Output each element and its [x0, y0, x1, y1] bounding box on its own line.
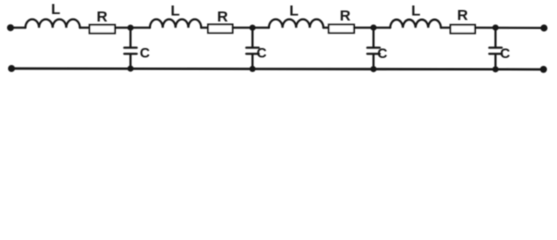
wire L2 to R2	[201, 27, 208, 29]
svg-text:C: C	[500, 45, 510, 61]
node 1 junction dot (top)	[127, 25, 133, 31]
node 4 junction dot (top)	[492, 25, 498, 31]
terminal dot top-right	[541, 25, 548, 32]
inductor L2	[150, 19, 201, 27]
inductor L4	[390, 20, 441, 28]
wire R3 to node 3 and on to L4	[354, 27, 390, 29]
svg-text:C: C	[377, 45, 387, 61]
wire bottom rail	[12, 67, 544, 70]
capacitor C1	[124, 28, 136, 69]
capacitor C3	[367, 28, 379, 70]
svg-text:L: L	[51, 1, 60, 18]
wire R1 to node 1 and on to L2	[115, 27, 150, 29]
resistor R1	[90, 25, 116, 34]
wire L3 to R3	[323, 27, 328, 29]
terminal dot bottom-right	[540, 66, 547, 73]
node 1 junction dot (bottom)	[127, 66, 133, 72]
inductor L3	[269, 19, 323, 27]
resistor R4	[450, 25, 475, 34]
capacitor C4	[489, 28, 501, 70]
node 4 junction dot (bottom)	[492, 66, 498, 72]
terminal dot top-left	[7, 24, 14, 31]
svg-text:C: C	[257, 45, 267, 61]
wire R4 to node 4 and on to right terminal	[475, 27, 544, 29]
svg-text:L: L	[289, 2, 298, 19]
svg-text:R: R	[97, 8, 108, 25]
wire top-left lead	[11, 27, 26, 29]
svg-text:R: R	[457, 7, 468, 24]
svg-text:L: L	[171, 2, 180, 19]
node 3 junction dot (top)	[370, 25, 376, 31]
wire L1 to R1	[80, 27, 90, 29]
resistor R2	[208, 24, 233, 33]
terminal dot bottom-left	[8, 65, 15, 72]
resistor R3	[329, 25, 354, 33]
svg-text:L: L	[411, 2, 420, 19]
svg-text:R: R	[340, 7, 351, 24]
svg-text:C: C	[140, 45, 150, 61]
node 2 junction dot (bottom)	[249, 66, 255, 72]
node 3 junction dot (bottom)	[370, 66, 376, 72]
capacitor C2	[246, 28, 258, 69]
wire R2 to node 2 and on to L3	[233, 27, 269, 29]
node 2 junction dot (top)	[249, 25, 255, 31]
inductor L1	[25, 19, 79, 27]
wire L4 to R4	[441, 27, 451, 29]
svg-text:R: R	[217, 8, 228, 25]
